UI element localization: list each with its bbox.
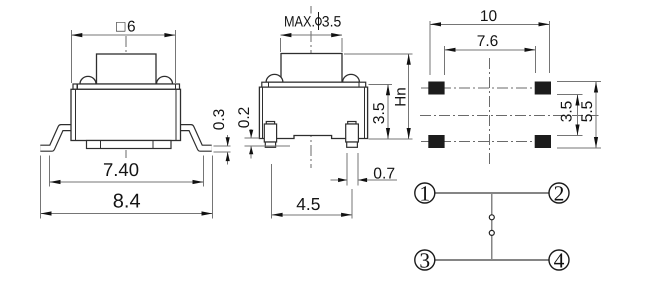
wire 1-2 bbox=[435, 192, 549, 194]
svg-text:7.40: 7.40 bbox=[103, 159, 139, 180]
right lead (gull-wing) bbox=[178, 128, 212, 149]
dimension 7.40 bbox=[50, 156, 204, 187]
svg-text:□: □ bbox=[116, 18, 126, 35]
pad 2 (top-right) bbox=[535, 82, 551, 95]
svg-text:5.5: 5.5 bbox=[579, 101, 596, 123]
svg-text:3: 3 bbox=[419, 248, 430, 272]
svg-text:7.6: 7.6 bbox=[477, 33, 499, 50]
pin 3 bbox=[415, 250, 435, 270]
horizontal centerline bbox=[420, 115, 599, 117]
row centerline bottom bbox=[421, 141, 554, 143]
dimension square-6 bbox=[71, 30, 175, 83]
svg-text:3.5: 3.5 bbox=[322, 13, 342, 30]
svg-text:10: 10 bbox=[480, 8, 498, 25]
svg-text:6: 6 bbox=[127, 18, 136, 35]
svg-text:1: 1 bbox=[419, 181, 430, 205]
pad 4 (bottom-right) bbox=[535, 135, 551, 148]
contact b bbox=[489, 230, 494, 235]
dimension 10 bbox=[430, 21, 550, 75]
vertical centerline bbox=[489, 58, 491, 164]
svg-text:2: 2 bbox=[554, 181, 565, 205]
contact a bbox=[489, 215, 494, 220]
dimension 5.5 (pad extent) bbox=[557, 82, 601, 149]
pin 2 bbox=[549, 183, 569, 203]
body (base) left view bbox=[71, 89, 181, 140]
right terminal (front) bbox=[346, 122, 359, 148]
pin 1 bbox=[415, 183, 435, 203]
pad 1 (top-left) bbox=[428, 82, 444, 95]
svg-text:MAX.: MAX. bbox=[284, 13, 315, 30]
cover plate bbox=[73, 84, 180, 89]
pad 3 (bottom-left) bbox=[428, 135, 444, 148]
body (front) bbox=[259, 87, 367, 138]
left dome contact (front) bbox=[266, 74, 283, 82]
svg-text:0.2: 0.2 bbox=[236, 107, 253, 129]
left terminal (front) bbox=[264, 122, 276, 148]
svg-text:4.5: 4.5 bbox=[296, 194, 320, 214]
plunger front view bbox=[281, 54, 342, 83]
svg-text:0.7: 0.7 bbox=[373, 166, 395, 183]
dimension 7.6 bbox=[445, 46, 536, 75]
plunger (stem) left view bbox=[97, 54, 157, 84]
cover plate (front) bbox=[262, 82, 366, 87]
dimension Hn (total height) bbox=[344, 54, 413, 139]
wire switch vertical bbox=[491, 193, 493, 260]
right dome contact bbox=[157, 76, 173, 84]
centerline (front view) bbox=[310, 6, 312, 14]
dimension 0.3 (lead thickness) bbox=[214, 135, 231, 165]
pin 4 bbox=[549, 250, 569, 270]
svg-text:Hn: Hn bbox=[392, 87, 409, 107]
dimension 0.2 (standoff) bbox=[245, 129, 291, 159]
bottom boss bbox=[87, 141, 172, 149]
dimension 0.7 (lead width) bbox=[331, 153, 398, 186]
svg-text:3.5: 3.5 bbox=[371, 102, 388, 124]
dimension MAX phi 3.5 bbox=[280, 35, 342, 52]
dimension 3.5 (body height) bbox=[369, 84, 413, 139]
dimension 3.5 (pad gap) bbox=[557, 95, 583, 136]
centerline (left view) bbox=[125, 36, 127, 158]
row centerline top bbox=[421, 87, 554, 89]
wire 3-4 bbox=[435, 259, 549, 261]
svg-text:0.3: 0.3 bbox=[211, 109, 228, 131]
svg-text:3.5: 3.5 bbox=[559, 101, 576, 123]
left dome contact bbox=[80, 76, 96, 84]
dimension 4.5 (lead pitch) bbox=[272, 164, 353, 218]
svg-text:4: 4 bbox=[554, 248, 565, 272]
right dome contact (front) bbox=[343, 74, 360, 82]
left lead (gull-wing) bbox=[40, 128, 74, 149]
dimension 8.4 bbox=[41, 156, 213, 219]
svg-text:8.4: 8.4 bbox=[113, 191, 141, 213]
